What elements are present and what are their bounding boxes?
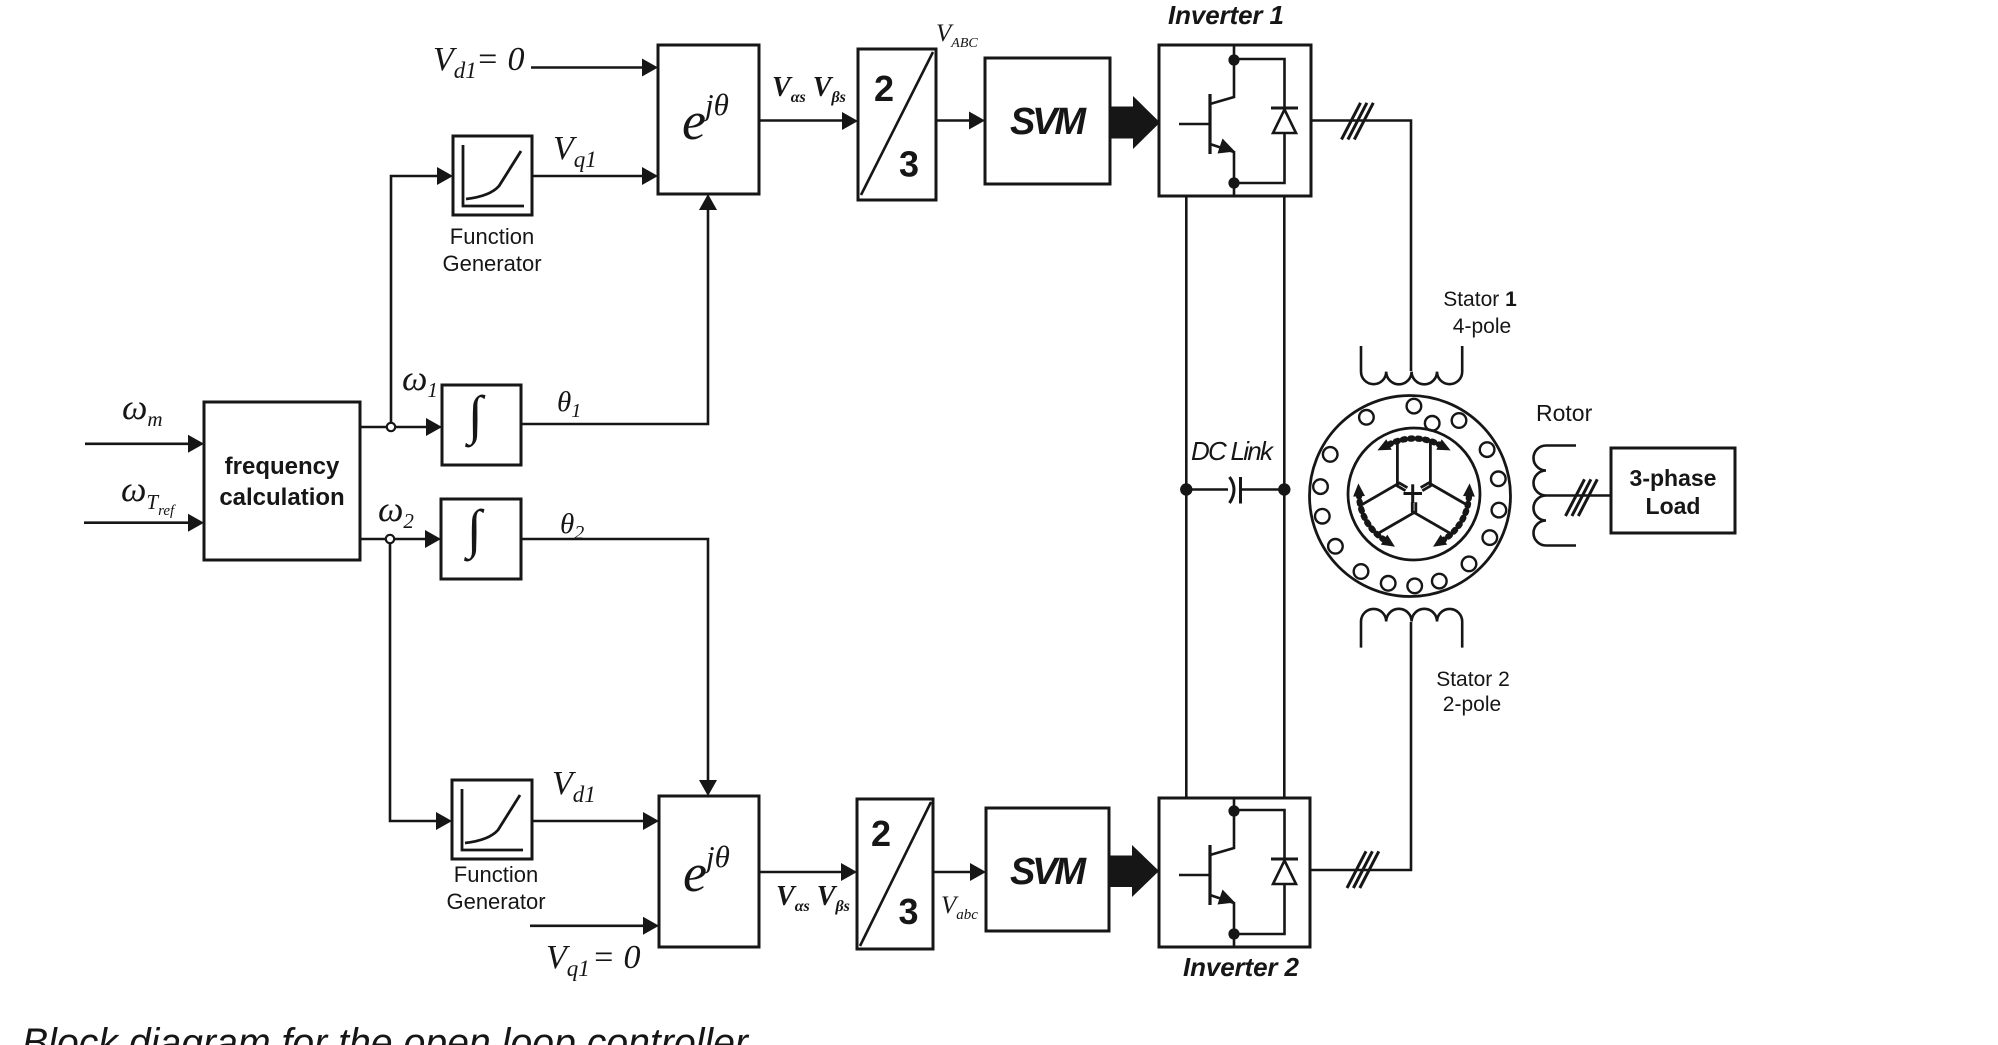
block function generator 1 [453, 136, 532, 215]
three-phase slashes inverter1 output [1342, 103, 1374, 140]
block inverter 1 [1159, 45, 1311, 196]
svg-text:SVM: SVM [1010, 851, 1087, 893]
svg-text:= 0: = 0 [592, 939, 640, 976]
three-phase slashes inverter2 output [1347, 851, 1379, 888]
igbt collector lead [1210, 60, 1234, 104]
svg-text:SVM: SVM [1010, 101, 1087, 143]
freewheel diode branch [1234, 59, 1285, 183]
rotor plus sign [1404, 484, 1423, 503]
wire Vd1 from fg2 to e-jtheta 2 [532, 820, 645, 823]
block function generator 2 [452, 780, 532, 859]
block integrator 1 [442, 385, 521, 465]
stator slots [1313, 399, 1506, 593]
igbt gate lead [1179, 123, 1210, 126]
dc link left rail [1185, 196, 1188, 798]
fg2 curve [465, 795, 520, 843]
dc link right rail [1283, 196, 1286, 798]
motor outer circle [1310, 396, 1511, 597]
igbt emitter arrow [1218, 139, 1236, 154]
svg-text:3: 3 [899, 144, 919, 185]
igbt top junction dot [1228, 54, 1239, 65]
igbt base bar [1208, 94, 1211, 154]
svg-text:Stator 2: Stator 2 [1436, 668, 1510, 691]
block frequency calculation [204, 402, 360, 560]
block SVM 1 [985, 58, 1110, 184]
power flow arrow SVM2 to inverter 2 [1109, 845, 1159, 897]
stator 2 winding coil [1361, 609, 1462, 648]
igbt collector wire [1233, 46, 1236, 59]
wire theta1 to bottom of e-jtheta 1 [521, 208, 708, 424]
wire e-jtheta1 to 2/3 block 1 [759, 119, 844, 122]
igbt emitter lead [1210, 144, 1234, 183]
wire Vq1=0 into e-jtheta 2 [530, 924, 645, 927]
svg-text:calculation: calculation [219, 484, 344, 511]
inverter 1 internals [1179, 46, 1298, 195]
svg-text:2: 2 [874, 68, 894, 109]
diode cathode bar [1271, 107, 1298, 110]
arrowheads [188, 59, 986, 935]
wire omega2 to integrator 2 [360, 538, 427, 541]
block 2/3 transform 1 [858, 49, 936, 200]
block 3-phase load [1611, 448, 1735, 533]
wire omega1 to integrator 1 [360, 426, 428, 429]
svg-text:Generator: Generator [442, 251, 541, 276]
svg-text:Stator 1: Stator 1 [1443, 288, 1517, 311]
rotor coil right side [1534, 446, 1577, 546]
block 2/3 transform 2 [857, 799, 933, 949]
svg-text:Rotor: Rotor [1536, 400, 1593, 426]
svg-text:DC Link: DC Link [1191, 436, 1275, 466]
fg1 curve [466, 151, 521, 199]
wire omega_Tref input [84, 521, 190, 524]
svg-text:Load: Load [1646, 493, 1701, 519]
svg-text:Inverter 2: Inverter 2 [1183, 952, 1300, 982]
igbt wire to box bottom [1233, 183, 1236, 195]
fg1 axes [463, 145, 524, 206]
svg-text:2: 2 [871, 813, 891, 854]
dc link capacitor curved plate [1230, 477, 1235, 503]
wire theta2 to top of e-jtheta 2 [521, 539, 708, 782]
dc link capacitor straight plate [1239, 477, 1242, 504]
svg-text:frequency: frequency [225, 453, 340, 480]
svg-text:3-phase: 3-phase [1630, 465, 1717, 491]
wire omega2 branch down to function generator 2 [390, 543, 438, 821]
power flow arrow SVM1 to inverter 1 [1110, 96, 1160, 149]
block e-jtheta rotator 2 [659, 796, 759, 947]
svg-text:= 0: = 0 [476, 41, 524, 78]
motor inner circle [1348, 428, 1480, 560]
svg-text:2-pole: 2-pole [1443, 693, 1501, 716]
rotor three-arm armature [1361, 442, 1467, 534]
stator 1 winding coil [1361, 346, 1462, 384]
three-phase slashes rotor [1566, 479, 1598, 516]
block inverter 2 [1159, 798, 1310, 947]
fg2 axes [462, 789, 523, 850]
node omega2 junction [386, 535, 394, 543]
wire omega_m input [85, 442, 190, 445]
svg-text:3: 3 [898, 891, 918, 932]
svg-text:Function: Function [454, 862, 538, 887]
wire inverter1 to stator1 [1311, 121, 1411, 372]
block SVM 2 [986, 808, 1109, 931]
igbt bottom junction dot [1228, 177, 1239, 188]
wire 2/3 block 1 to SVM 1 [936, 119, 971, 122]
wire rotor to load [1546, 494, 1611, 497]
svg-text:Block diagram for the open loo: Block diagram for the open loop controll… [22, 1021, 750, 1045]
block integrator 2 [441, 499, 521, 579]
block e-jtheta rotator 1 [658, 45, 759, 194]
rotor winding arcs with arrows [1348, 438, 1480, 552]
wire 2/3 block 2 to SVM 2 [933, 871, 972, 874]
diode triangle [1273, 110, 1296, 134]
wire inverter2 to stator2 [1310, 622, 1411, 870]
wire Vq1 from fg1 to e-jtheta 1 [532, 175, 644, 178]
svg-text:Inverter 1: Inverter 1 [1168, 0, 1284, 30]
svg-text:Function: Function [450, 224, 534, 249]
diagonal of 2/3 block 2 [860, 802, 931, 946]
wire e-jtheta2 to 2/3 block 2 [759, 871, 843, 874]
dc link capacitor wires [1186, 488, 1228, 491]
diagonal of 2/3 block 1 [861, 52, 933, 195]
wire omega1 branch up to function generator 1 [391, 176, 440, 423]
wire Vd1=0 into e-jtheta 1 [531, 66, 644, 69]
dc link junction dots [1180, 483, 1192, 495]
svg-text:4-pole: 4-pole [1453, 315, 1511, 338]
svg-text:Generator: Generator [446, 889, 545, 914]
node omega1 junction [387, 423, 395, 431]
